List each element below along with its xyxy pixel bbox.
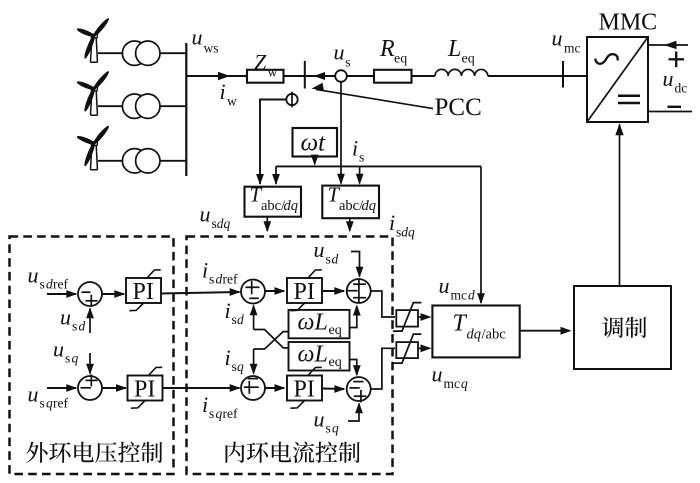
wire xyxy=(160,52,186,54)
svg-text:i: i xyxy=(225,298,231,323)
svg-text:u: u xyxy=(28,382,39,407)
svg-text:s: s xyxy=(209,406,214,421)
svg-text:d: d xyxy=(237,312,244,327)
wind turbine WT3 xyxy=(76,124,111,169)
svg-text:dq: dq xyxy=(362,198,377,214)
controller PI3 xyxy=(287,270,322,311)
label u_sd inner xyxy=(314,237,339,267)
svg-text:ref: ref xyxy=(223,406,238,421)
svg-text:d: d xyxy=(332,252,339,267)
svg-text:i: i xyxy=(352,136,358,161)
svg-text:dq: dq xyxy=(284,198,299,214)
wire xyxy=(160,105,186,107)
block T_abc/dq U2 xyxy=(322,183,379,219)
T1 output u_sdq xyxy=(263,217,271,233)
label u_sdq xyxy=(200,202,231,232)
wire xyxy=(488,75,587,77)
S2 minus xyxy=(81,387,91,389)
S6 mid bar xyxy=(349,387,359,389)
svg-text:d: d xyxy=(79,319,86,334)
block ωt xyxy=(293,128,338,157)
wire S3 to PI3 xyxy=(265,287,286,295)
svg-text:u: u xyxy=(314,407,325,432)
label u_mc xyxy=(552,25,581,55)
wire ωt to Tdq xyxy=(477,166,485,304)
block ωLeq B xyxy=(289,341,350,370)
limiter SAT1 xyxy=(393,303,422,332)
summer S2 xyxy=(78,376,102,400)
svg-text:d: d xyxy=(46,277,53,292)
arrow into S3 xyxy=(230,288,241,296)
wire modulation to MMC xyxy=(615,123,623,286)
bus u_ws xyxy=(185,43,187,176)
svg-text:ws: ws xyxy=(204,40,219,55)
svg-text:dq: dq xyxy=(401,225,415,240)
svg-text:abc/: abc/ xyxy=(261,198,286,214)
wind turbine WT2 xyxy=(76,70,111,115)
svg-text:eq: eq xyxy=(394,51,407,66)
S5 plus xyxy=(244,381,259,394)
svg-text:u: u xyxy=(432,362,443,387)
label i_sq inner xyxy=(225,345,245,374)
svg-text:q: q xyxy=(216,406,223,421)
wire u_sqref xyxy=(47,384,77,392)
svg-text:s: s xyxy=(209,272,214,287)
wire S2 to PI2 xyxy=(102,384,127,392)
S2 plus xyxy=(86,374,98,386)
wire S1 to PI1 xyxy=(102,290,125,298)
tick PCC xyxy=(304,61,306,89)
svg-text:/abc: /abc xyxy=(482,327,506,343)
svg-text:mc: mc xyxy=(451,288,468,303)
transformer TR2 xyxy=(122,94,160,118)
svg-text:ωL: ωL xyxy=(298,309,328,335)
svg-text:ref: ref xyxy=(53,277,68,292)
wire i_sq down xyxy=(250,349,258,375)
svg-text:PI: PI xyxy=(294,279,315,305)
wire u_sq hook xyxy=(348,402,363,421)
inductor Leq xyxy=(435,69,488,76)
MMC dc-side bars xyxy=(618,96,640,103)
limiter SAT2 xyxy=(393,334,422,363)
arrow SAT2 to Tdq xyxy=(418,344,432,352)
svg-text:eq: eq xyxy=(329,323,342,338)
svg-text:w: w xyxy=(268,64,278,79)
ωt output arrow xyxy=(311,155,319,166)
label MMC xyxy=(599,10,658,36)
svg-text:i: i xyxy=(389,210,395,235)
controller PI2 xyxy=(128,367,163,408)
S6 plus xyxy=(354,390,367,402)
S4 top bar xyxy=(353,283,366,285)
svg-text:T: T xyxy=(453,311,468,337)
svg-text:ωt: ωt xyxy=(301,130,327,157)
label u_mcq xyxy=(432,362,469,392)
summer S3 xyxy=(241,280,265,304)
svg-text:u: u xyxy=(60,305,71,330)
label u_dc xyxy=(663,66,688,96)
S6 top bar xyxy=(353,381,363,383)
block T_abc/dq U1 xyxy=(245,183,302,217)
converter MMC box xyxy=(587,37,648,122)
svg-text:d: d xyxy=(216,272,223,287)
svg-text:u: u xyxy=(53,337,64,362)
svg-text:w: w xyxy=(227,94,237,109)
summer S1 xyxy=(78,282,102,306)
ωt drop to T1 xyxy=(272,166,280,185)
wire xyxy=(284,75,375,77)
S5 minus xyxy=(248,378,258,380)
svg-text:q: q xyxy=(46,396,53,411)
S1 minus xyxy=(82,291,91,293)
svg-text:u: u xyxy=(552,25,563,50)
label u_mcd xyxy=(439,273,476,303)
S1 plus xyxy=(86,295,98,307)
arrow into S5 xyxy=(230,384,241,392)
svg-text:ωL: ωL xyxy=(298,341,328,367)
node u_s xyxy=(335,70,347,82)
svg-text:R: R xyxy=(379,36,395,62)
ωt drop to T2 xyxy=(356,166,364,184)
label i_sd inner xyxy=(225,298,245,327)
wire S5 to PI4 xyxy=(265,384,286,392)
transformer TR1 xyxy=(122,41,160,65)
svg-text:s: s xyxy=(65,351,70,366)
svg-text:i: i xyxy=(220,79,226,104)
svg-text:ref: ref xyxy=(53,396,68,411)
MMC diagonal xyxy=(587,37,648,122)
svg-text:u: u xyxy=(200,202,211,227)
svg-text:MMC: MMC xyxy=(599,10,658,36)
wire i_sd up xyxy=(250,304,258,329)
label Leq xyxy=(447,36,475,66)
label minus xyxy=(668,106,682,108)
label i_sdq xyxy=(389,210,415,240)
ωt distribution wire xyxy=(276,165,481,167)
label u_sq outer xyxy=(53,337,79,366)
svg-text:u: u xyxy=(663,66,674,91)
svg-text:dq: dq xyxy=(467,327,482,343)
wire xyxy=(412,75,436,77)
label u_sdref xyxy=(28,263,69,292)
label inner loop xyxy=(225,441,359,463)
label i_sqref xyxy=(202,392,238,421)
wire u_sd up xyxy=(86,307,94,333)
arrow SAT1 to Tdq xyxy=(418,313,432,321)
label i_sdref xyxy=(202,258,238,287)
label u_ws xyxy=(192,25,219,56)
S4 vertical xyxy=(358,280,360,303)
wire u_sd hook xyxy=(351,252,363,278)
svg-text:s: s xyxy=(40,277,45,292)
wire PI2 to S5 xyxy=(163,387,240,389)
svg-text:i: i xyxy=(225,345,231,370)
wire Tdq to modulation xyxy=(520,327,572,335)
label Zw xyxy=(254,50,278,80)
wire PI1 to S3 xyxy=(161,292,240,294)
svg-text:d: d xyxy=(468,288,475,303)
S4 bottom bar xyxy=(353,297,366,299)
svg-text:u: u xyxy=(314,237,325,262)
transformer TR3 xyxy=(122,149,160,173)
svg-text:PCC: PCC xyxy=(435,94,482,121)
label plus xyxy=(669,52,685,68)
label u_s xyxy=(334,40,351,70)
T2 output i_sdq xyxy=(346,218,354,232)
block T_dq/abc xyxy=(432,306,519,358)
svg-text:s: s xyxy=(326,252,331,267)
summer S6 xyxy=(347,377,371,401)
controller PI4 xyxy=(287,367,322,408)
svg-text:PI: PI xyxy=(133,279,154,305)
svg-text:q: q xyxy=(461,376,468,391)
label u_sqref xyxy=(28,382,69,411)
S3 minus xyxy=(249,297,258,299)
wire ωLeqA to S4 xyxy=(350,305,361,328)
label outer loop xyxy=(26,442,162,463)
svg-text:q: q xyxy=(72,351,79,366)
svg-text:L: L xyxy=(447,36,461,62)
impedance Zw xyxy=(247,70,284,83)
wind turbine WT1 xyxy=(76,17,111,62)
svg-text:mc: mc xyxy=(564,41,581,56)
wire probe to T1 xyxy=(256,100,286,186)
svg-text:s: s xyxy=(232,359,237,374)
dc positive wire xyxy=(648,41,688,49)
svg-text:Z: Z xyxy=(254,50,267,75)
svg-text:mc: mc xyxy=(444,376,461,391)
wire xyxy=(160,160,186,162)
svg-text:q: q xyxy=(332,421,339,436)
PCC pointer xyxy=(311,83,433,109)
wire xyxy=(98,160,122,162)
wire xyxy=(186,75,247,77)
svg-text:s: s xyxy=(232,312,237,327)
svg-text:q: q xyxy=(237,359,244,374)
label i_s xyxy=(352,136,364,165)
svg-text:dq: dq xyxy=(217,216,231,231)
svg-text:u: u xyxy=(28,263,39,288)
svg-text:s: s xyxy=(359,150,364,165)
svg-text:i: i xyxy=(202,392,208,417)
arrow i_w xyxy=(218,72,230,80)
svg-text:abc/: abc/ xyxy=(339,198,364,214)
label i_w xyxy=(220,79,238,109)
label Req xyxy=(379,36,407,66)
wire u_sdref xyxy=(47,290,77,298)
label PCC xyxy=(435,94,482,121)
svg-text:PI: PI xyxy=(294,377,315,403)
wire xyxy=(98,105,122,107)
resistor Req xyxy=(374,70,412,83)
MMC ac-side sine xyxy=(595,54,617,64)
controller PI1 xyxy=(126,270,161,311)
summer S4 xyxy=(347,279,371,303)
S3 plus xyxy=(246,281,260,295)
svg-text:s: s xyxy=(72,319,77,334)
inner current loop dashed box xyxy=(187,237,393,475)
block ωLeq A xyxy=(289,309,350,338)
wire PI4 to S6 xyxy=(323,385,345,393)
dc negative wire xyxy=(648,111,692,113)
wire S4 to limiter xyxy=(371,291,395,317)
wire PI3 to S4 xyxy=(323,287,345,295)
svg-text:eq: eq xyxy=(462,51,475,66)
summer S5 xyxy=(241,376,265,400)
wire xyxy=(98,52,122,54)
svg-text:ref: ref xyxy=(223,272,238,287)
S4 mid bar xyxy=(347,290,358,292)
label u_sq inner xyxy=(314,407,340,436)
wire u_sq down xyxy=(86,353,94,375)
current sensor probe xyxy=(286,92,297,108)
block modulation xyxy=(574,286,671,369)
wire i_sq jog xyxy=(254,332,289,349)
tick u_mc xyxy=(562,61,564,88)
svg-text:u: u xyxy=(192,25,203,50)
svg-text:s: s xyxy=(326,421,331,436)
svg-text:PI: PI xyxy=(134,377,155,403)
svg-text:i: i xyxy=(202,258,208,283)
wire ωLeqB to S6 xyxy=(350,360,361,377)
svg-text:s: s xyxy=(40,396,45,411)
wire S6 to limiter xyxy=(371,348,395,389)
svg-text:eq: eq xyxy=(329,355,342,370)
svg-text:dc: dc xyxy=(675,81,688,96)
wire i_sd jog xyxy=(254,330,289,348)
svg-text:u: u xyxy=(439,273,450,298)
label u_sd outer xyxy=(60,305,86,334)
outer voltage loop dashed box xyxy=(10,237,174,475)
arrow i_s direction xyxy=(314,72,326,80)
svg-text:s: s xyxy=(345,55,350,70)
svg-text:u: u xyxy=(334,40,345,65)
wire u_s to T2 (i_s) xyxy=(337,82,345,185)
